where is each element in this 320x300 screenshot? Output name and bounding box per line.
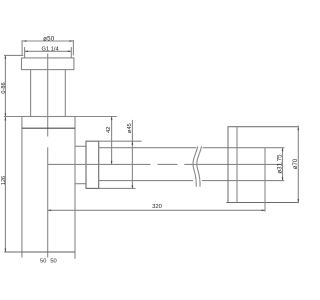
dimension ø70 line — [297, 126, 299, 204]
inlet tube wall left — [30, 70, 32, 117]
nut bottom extension line — [99, 187, 136, 189]
bottom extension tick right wall — [74, 252, 76, 259]
inlet tube wall right — [64, 70, 66, 117]
dimension 42 line — [111, 117, 113, 165]
svg-text:ø50: ø50 — [43, 36, 55, 43]
svg-text:G1 1/4: G1 1/4 — [42, 46, 59, 52]
dimension G1 1/4 extension lines — [24, 47, 26, 58]
wall flange outer rectangle — [226, 127, 298, 203]
pipe break curve right — [197, 146, 202, 186]
dimension ø31.75 line — [282, 148, 284, 181]
trap body rectangle — [22, 117, 75, 253]
pipe centerline dashed — [48, 163, 151, 165]
dimension ø50 extension lines — [21, 40, 23, 55]
vertical centerline — [47, 54, 49, 137]
svg-text:0-86: 0-86 — [1, 82, 7, 93]
outlet pipe bottom line right of break — [202, 180, 284, 182]
svg-text:50: 50 — [50, 259, 56, 265]
inlet flange rectangle — [22, 58, 74, 70]
outlet pipe bottom line left of break — [99, 180, 193, 182]
pipe break curve left — [193, 146, 198, 186]
body top line with extensions — [4, 116, 117, 118]
body bottom line extended — [4, 251, 75, 253]
dimension 320 line — [48, 209, 265, 211]
dimension ø50 line — [23, 40, 73, 42]
outlet pipe top line left of break — [99, 147, 197, 149]
dimension G1 1/4 line — [25, 50, 72, 52]
body seam line — [22, 127, 75, 129]
svg-text:50: 50 — [40, 259, 46, 265]
svg-text:320: 320 — [152, 204, 163, 210]
dimension 0-86 and 126 vertical line — [5, 55, 7, 252]
bottom extension tick left wall — [21, 252, 23, 258]
dimension ø45 line — [132, 120, 134, 189]
pipe end vertical with extension down — [264, 148, 266, 212]
svg-text:42: 42 — [106, 127, 112, 133]
outlet nut — [86, 141, 99, 188]
svg-text:126: 126 — [1, 176, 7, 185]
wall flange front ring line — [236, 127, 238, 203]
outlet pipe top line right of break — [203, 147, 285, 149]
svg-text:ø31.75: ø31.75 — [277, 154, 284, 174]
svg-text:ø70: ø70 — [293, 158, 299, 169]
extension line top left — [4, 54, 23, 56]
nut top extension line — [99, 140, 142, 142]
outlet connector piece — [75, 145, 86, 147]
svg-text:ø45: ø45 — [127, 123, 133, 133]
